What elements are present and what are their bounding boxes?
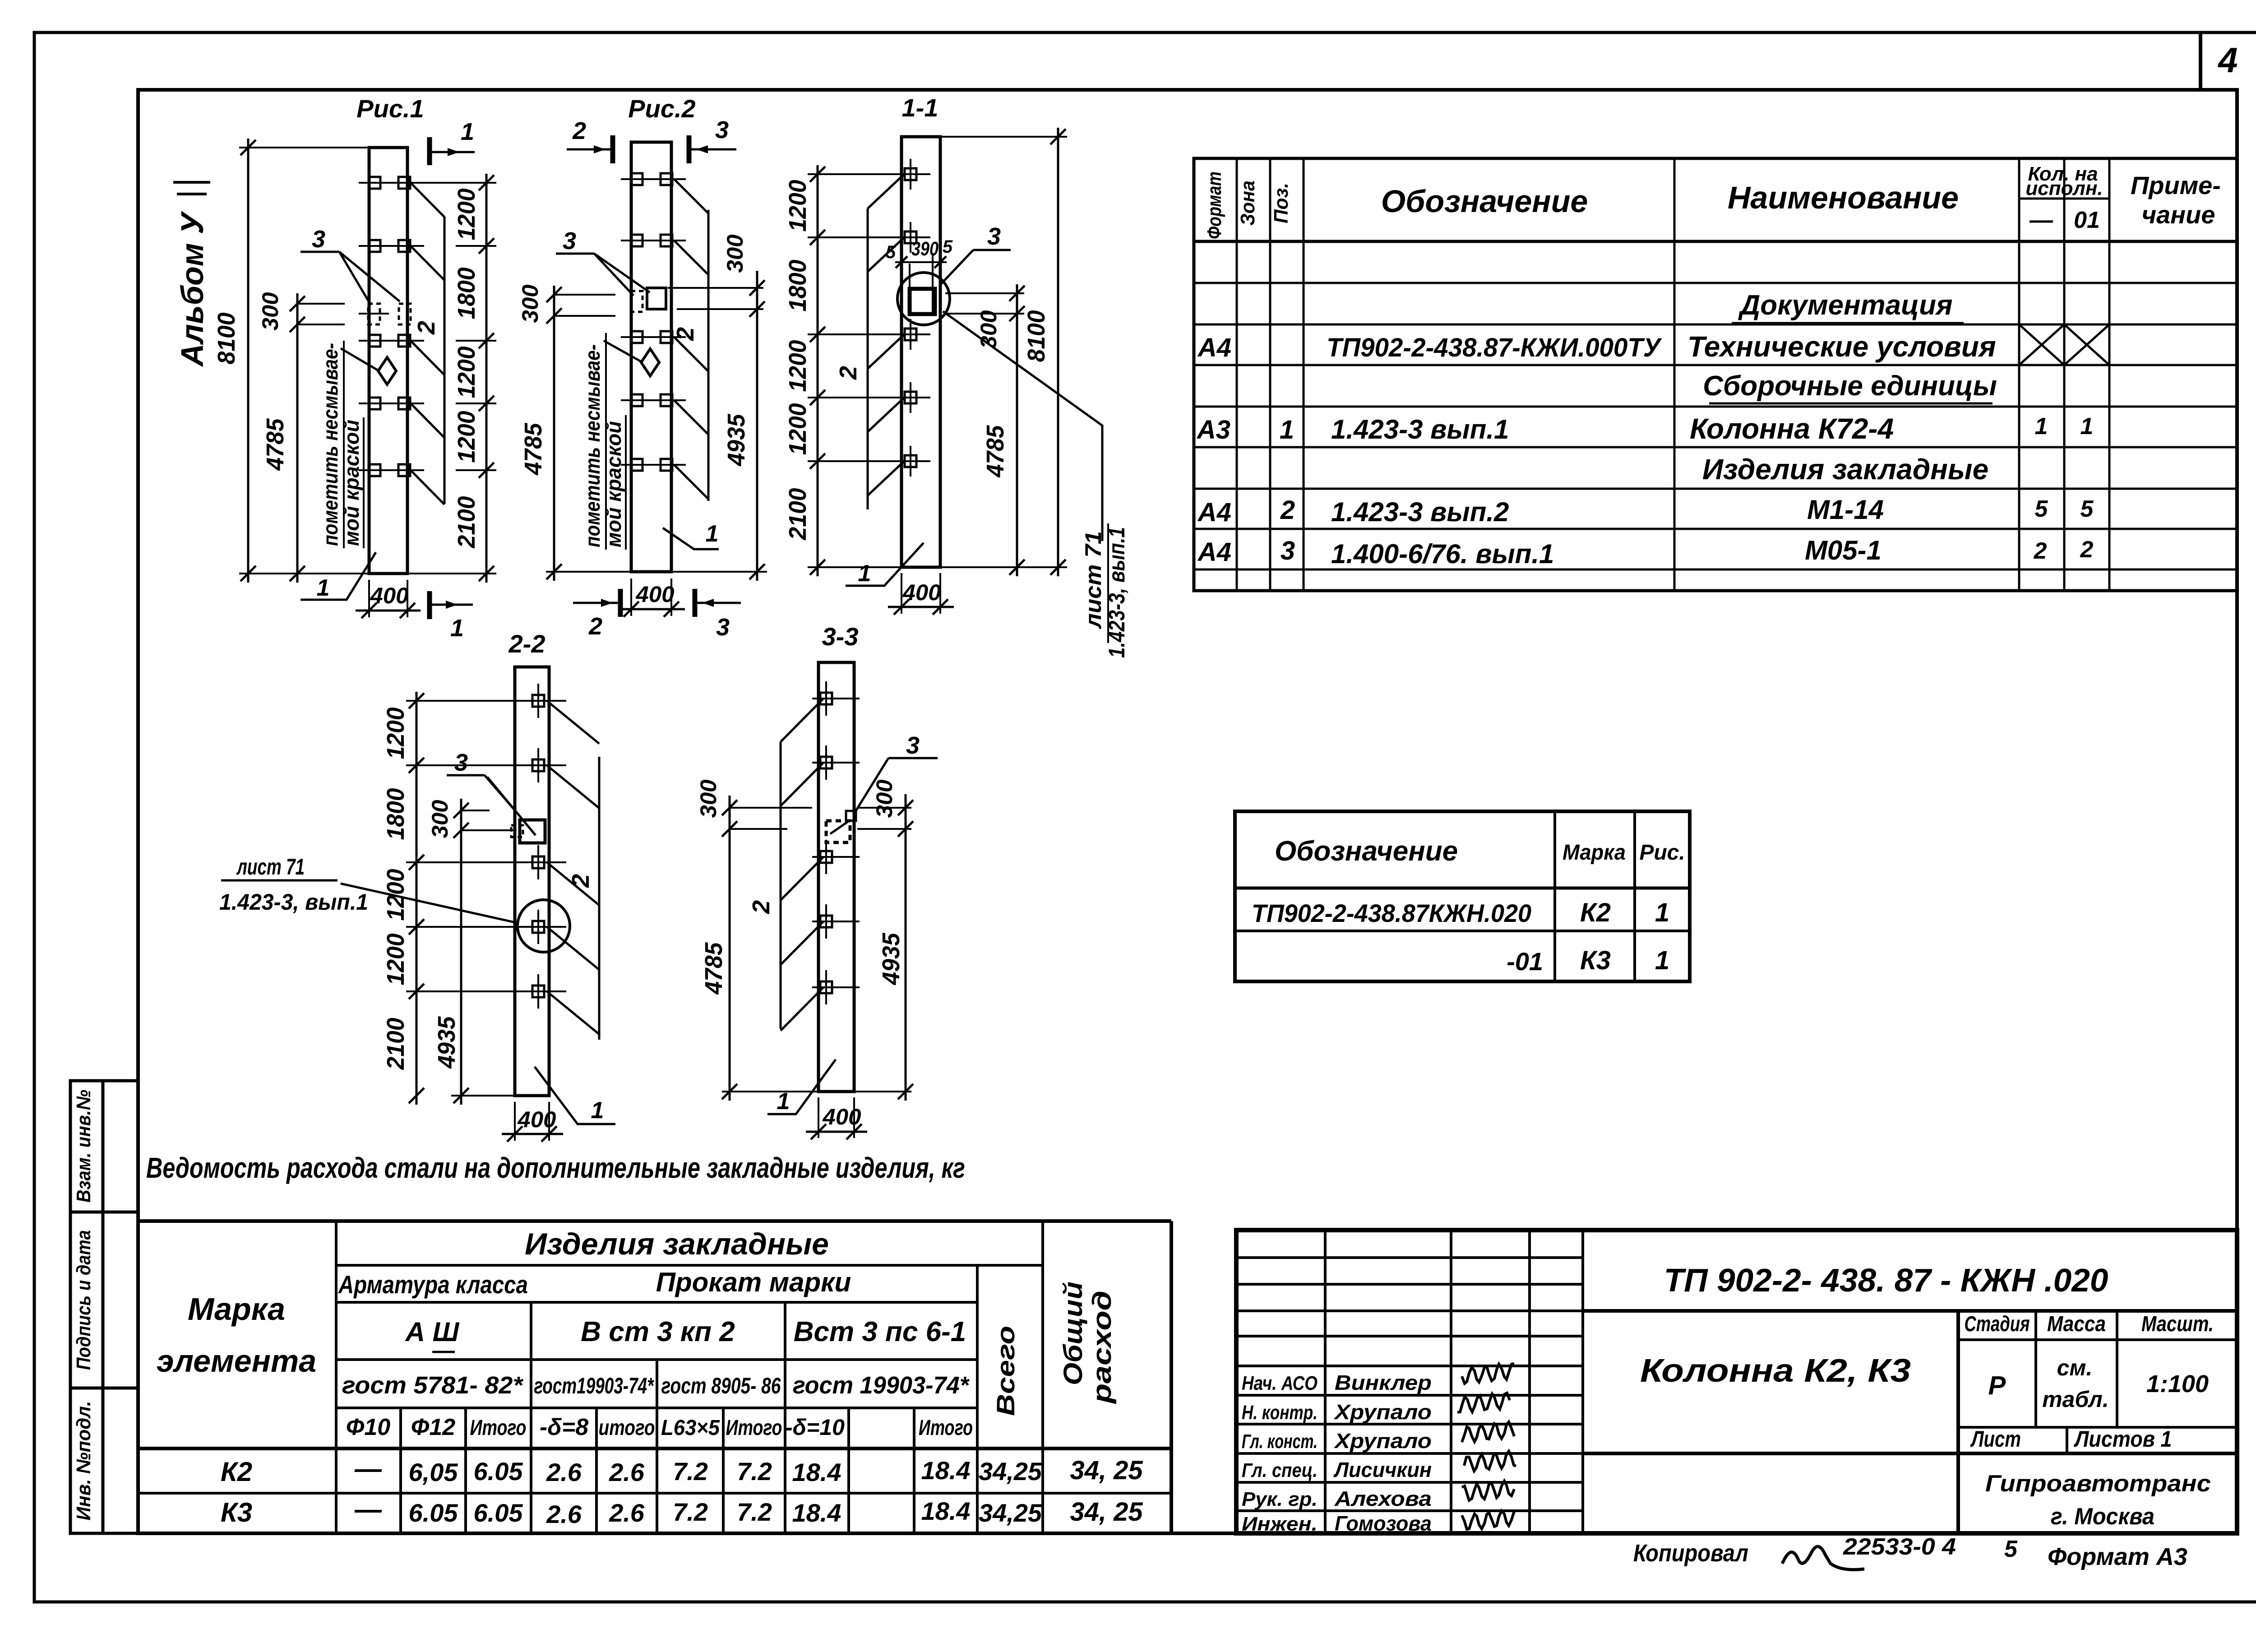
svg-text:Общий: Общий — [1059, 1282, 1088, 1385]
svg-text:18.4: 18.4 — [921, 1456, 971, 1485]
svg-text:М1-14: М1-14 — [1807, 495, 1884, 525]
svg-text:400: 400 — [517, 1107, 556, 1132]
svg-text:1200: 1200 — [453, 189, 480, 241]
svg-text:Рис.: Рис. — [1639, 841, 1685, 865]
svg-text:6.05: 6.05 — [409, 1499, 458, 1527]
2-2 dimension 4935 — [433, 830, 515, 1105]
svg-text:лист 71: лист 71 — [236, 854, 305, 879]
svg-text:-01: -01 — [1507, 947, 1543, 976]
svg-text:гост 19903-74*: гост 19903-74* — [793, 1372, 970, 1399]
svg-text:Сборочные единицы: Сборочные единицы — [1703, 370, 1997, 402]
Ris.2 right dimension 300 — [668, 234, 765, 317]
svg-text:Ф12: Ф12 — [411, 1414, 456, 1440]
svg-text:3: 3 — [715, 116, 729, 143]
1-1 embedded plates — [890, 159, 930, 477]
3-3 column body — [818, 662, 854, 1092]
svg-text:1200: 1200 — [784, 180, 811, 232]
svg-text:400: 400 — [370, 583, 408, 608]
svg-text:1: 1 — [591, 1097, 604, 1124]
svg-text:1800: 1800 — [784, 260, 811, 312]
svg-text:7.2: 7.2 — [737, 1457, 772, 1485]
svg-text:300: 300 — [872, 779, 897, 818]
svg-text:К2: К2 — [221, 1457, 252, 1487]
svg-text:390: 390 — [911, 238, 938, 260]
svg-text:1: 1 — [2035, 413, 2048, 440]
svg-text:3: 3 — [987, 223, 1001, 250]
svg-text:1: 1 — [1280, 415, 1294, 444]
svg-text:А4: А4 — [1197, 537, 1231, 567]
svg-text:1200: 1200 — [453, 411, 480, 463]
Ris.2 special plate — [631, 288, 666, 312]
svg-text:4785: 4785 — [982, 425, 1009, 478]
svg-text:1-1: 1-1 — [902, 93, 938, 122]
svg-text:1: 1 — [706, 521, 719, 547]
Ris.2 section mark 2 top — [567, 117, 613, 163]
svg-text:К3: К3 — [221, 1497, 252, 1527]
steel table class AIII — [405, 1317, 460, 1352]
svg-text:Всего: Всего — [991, 1326, 1020, 1416]
figure 1-1 title — [902, 93, 938, 122]
svg-text:5: 5 — [2035, 496, 2048, 522]
svg-text:Масса: Масса — [2047, 1312, 2106, 1336]
marks table row K3 — [1507, 946, 1669, 976]
svg-text:ТП902-2-438.87-КЖИ.000ТУ: ТП902-2-438.87-КЖИ.000ТУ — [1327, 333, 1662, 362]
svg-text:300: 300 — [258, 292, 283, 330]
svg-text:6.05: 6.05 — [474, 1457, 523, 1485]
svg-text:исполн.: исполн. — [2025, 177, 2103, 199]
svg-text:табл.: табл. — [2042, 1387, 2109, 1412]
svg-text:18.4: 18.4 — [792, 1499, 841, 1527]
svg-text:1200: 1200 — [382, 934, 409, 986]
3-3 right dimension 300 — [857, 779, 913, 839]
svg-text:Лисичкин: Лисичкин — [1333, 1458, 1432, 1481]
label vzam inv — [73, 1090, 95, 1203]
Ris.2 embedded plates — [621, 173, 686, 471]
svg-text:1200: 1200 — [382, 708, 409, 759]
spec row sborochnye edinicy — [1703, 370, 1997, 403]
svg-text:В ст 3 кп 2: В ст 3 кп 2 — [581, 1316, 735, 1347]
svg-text:Стадия: Стадия — [1965, 1312, 2030, 1336]
svg-text:Взам. инв.№: Взам. инв.№ — [73, 1090, 95, 1203]
Ris.2 section mark 3 top — [689, 116, 736, 163]
svg-text:2.6: 2.6 — [609, 1458, 645, 1486]
svg-text:1: 1 — [1655, 946, 1669, 975]
svg-text:Изделия закладные: Изделия закладные — [1702, 453, 1988, 486]
svg-text:5: 5 — [2004, 1536, 2018, 1562]
Ris.1 note pometit nesmyvaemoy kraskoy — [319, 341, 379, 548]
Ris.2 dimension 4935 — [671, 309, 767, 581]
svg-text:2: 2 — [2080, 537, 2094, 563]
vedomost title text — [146, 1152, 965, 1184]
specification table grid — [1194, 158, 2237, 591]
2-2 detail circle — [518, 900, 570, 952]
svg-text:Итого: Итого — [726, 1416, 782, 1440]
svg-text:3: 3 — [312, 226, 325, 253]
svg-text:1800: 1800 — [453, 268, 480, 319]
svg-text:400: 400 — [635, 582, 674, 607]
svg-text:А4: А4 — [1197, 498, 1231, 527]
svg-text:3: 3 — [906, 732, 920, 759]
Ris.1 right dimension chain 1200 1800 1200 1200 2100 — [407, 174, 496, 583]
Ris.1 leader 1 bottom left — [300, 552, 376, 601]
1-1 callout 3 — [941, 223, 1011, 284]
title block outline — [1236, 1230, 2237, 1533]
svg-text:расход: расход — [1087, 1291, 1117, 1404]
svg-text:Нач. АСО: Нач. АСО — [1242, 1372, 1318, 1394]
svg-text:2: 2 — [835, 366, 862, 380]
svg-text:Гипроавтотранс: Гипроавтотранс — [1985, 1471, 2211, 1497]
svg-text:Листов 1: Листов 1 — [2074, 1426, 2172, 1452]
svg-text:2100: 2100 — [382, 1018, 409, 1070]
svg-text:2: 2 — [748, 900, 775, 914]
svg-text:Винклер: Винклер — [1335, 1371, 1432, 1394]
svg-text:01: 01 — [2074, 207, 2100, 233]
label podpis i data — [73, 1230, 95, 1370]
svg-text:Гомозова: Гомозова — [1335, 1512, 1432, 1535]
title block left grid — [1236, 1230, 1583, 1533]
svg-text:гост 5781- 82*: гост 5781- 82* — [342, 1372, 524, 1399]
svg-text:ТП902-2-438.87КЖН.020: ТП902-2-438.87КЖН.020 — [1252, 899, 1531, 927]
svg-text:34, 25: 34, 25 — [1070, 1497, 1143, 1527]
svg-text:-δ=8: -δ=8 — [540, 1414, 588, 1440]
svg-text:2100: 2100 — [784, 488, 811, 541]
Ris.1 dashed plates — [359, 304, 411, 324]
svg-text:Н. контр.: Н. контр. — [1242, 1402, 1318, 1424]
svg-text:Масшт.: Масшт. — [2141, 1312, 2214, 1336]
svg-text:34, 25: 34, 25 — [1070, 1456, 1143, 1485]
Ris.2 leader 1 — [663, 521, 719, 549]
Ris.1 embedded plates M1-14 — [359, 177, 424, 476]
svg-text:Вст 3 пс 6-1: Вст 3 пс 6-1 — [794, 1316, 966, 1347]
svg-text:2: 2 — [572, 117, 586, 144]
svg-text:3: 3 — [563, 227, 576, 255]
1-1 column body — [901, 137, 940, 567]
1-1 dimension 300 middle — [945, 284, 1025, 349]
2-2 callout list 71 — [219, 854, 519, 923]
svg-text:Колонна К72-4: Колонна К72-4 — [1690, 412, 1894, 445]
svg-text:1.400-6/76. вып.1: 1.400-6/76. вып.1 — [1331, 539, 1554, 569]
3-3 special plate — [826, 811, 856, 842]
2-2 special plate — [511, 820, 545, 843]
svg-text:Инв. №подл.: Инв. №подл. — [73, 1401, 95, 1521]
Ris.2 column body — [631, 142, 671, 572]
svg-text:8100: 8100 — [213, 313, 240, 365]
svg-text:2: 2 — [2034, 538, 2047, 564]
svg-text:гост 8905- 86: гост 8905- 86 — [661, 1373, 781, 1398]
2-2 column body — [515, 667, 549, 1096]
spec row M05-1 — [1197, 535, 2094, 569]
1-1 left dimension chain — [784, 165, 901, 576]
3-3 callout 3 — [854, 732, 938, 814]
svg-text:Р: Р — [1988, 1371, 2006, 1400]
Ris.2 bent bar position 2 — [672, 179, 708, 501]
1-1 dimension 4785 — [982, 314, 1025, 576]
Ris.1 column body — [369, 148, 407, 574]
3-3 left dimension 300 — [696, 779, 812, 839]
svg-text:3-3: 3-3 — [822, 622, 859, 651]
svg-text:1: 1 — [461, 118, 474, 145]
marks table grid — [1235, 811, 1690, 981]
steel table grid — [138, 1221, 1171, 1533]
1-1 leader 1 — [846, 543, 924, 587]
svg-text:34,25: 34,25 — [979, 1457, 1042, 1485]
Ris.1 dimension 300 — [258, 292, 345, 583]
svg-text:М05-1: М05-1 — [1805, 535, 1882, 565]
svg-text:400: 400 — [902, 580, 941, 605]
svg-text:4935: 4935 — [878, 933, 905, 986]
svg-text:4935: 4935 — [433, 1016, 460, 1069]
Ris.1 dimension 4785 — [262, 418, 305, 581]
svg-text:Обозначение: Обозначение — [1381, 184, 1588, 219]
1-1 bent bar position 2 — [835, 174, 904, 509]
figure 3-3 title — [822, 622, 859, 651]
steel table gost row — [342, 1372, 970, 1399]
svg-text:см.: см. — [2057, 1355, 2093, 1380]
1-1 leader to list 71 — [943, 311, 1129, 658]
svg-text:18.4: 18.4 — [792, 1458, 841, 1486]
svg-text:Инжен.: Инжен. — [1242, 1513, 1318, 1535]
spec row dokumentaciya — [1732, 290, 1964, 323]
marks table headers — [1275, 836, 1685, 867]
svg-text:4935: 4935 — [723, 414, 750, 467]
1-1 dimension 8100 — [940, 128, 1067, 576]
svg-text:гост19903-74*: гост19903-74* — [534, 1373, 655, 1398]
2-2 callout 3 — [447, 749, 536, 835]
svg-text:Подпись и дата: Подпись и дата — [73, 1230, 95, 1370]
figure 2-2 title — [509, 629, 546, 658]
svg-text:Прокат марки: Прокат марки — [656, 1267, 851, 1297]
svg-text:2: 2 — [1280, 495, 1295, 525]
svg-text:1800: 1800 — [382, 788, 409, 840]
album label — [173, 182, 210, 367]
2-2 leader 1 — [535, 1067, 615, 1124]
svg-text:Технические условия: Технические условия — [1687, 330, 1996, 363]
3-3 embedded plates — [812, 681, 860, 1004]
title block document number — [1664, 1263, 2108, 1299]
steel table header armatura klassa — [337, 1270, 528, 1299]
svg-text:7.2: 7.2 — [673, 1498, 708, 1526]
Ris.1 paint diamond mark — [378, 357, 396, 384]
svg-text:400: 400 — [822, 1104, 861, 1129]
steel table class Vst3ps6-1 — [794, 1316, 966, 1347]
steel table vsego rotated — [991, 1326, 1020, 1416]
spec row tehnicheskie usloviya — [1197, 330, 1996, 363]
spec crosses — [2019, 324, 2109, 365]
kopiroval line — [1633, 1534, 2187, 1570]
3-3 leader 1 — [767, 1060, 836, 1115]
Ris.1 dimension 8100 — [213, 139, 369, 583]
svg-text:300: 300 — [696, 779, 721, 818]
svg-text:34,25: 34,25 — [979, 1499, 1042, 1527]
svg-text:пометить несмывае-: пометить несмывае- — [581, 344, 604, 547]
svg-text:Итого: Итого — [919, 1416, 973, 1440]
svg-text:А3: А3 — [1196, 415, 1230, 444]
2-2 dimension 400 — [502, 1102, 563, 1142]
svg-text:1: 1 — [777, 1088, 790, 1115]
svg-text:2: 2 — [567, 874, 594, 888]
svg-text:Ведомость расхода стали на: Ведомость расхода стали на дополнительны… — [146, 1152, 965, 1184]
svg-text:1.423-3, вып.1: 1.423-3, вып.1 — [219, 889, 368, 915]
marks table row K2 — [1252, 898, 1669, 927]
steel table header prokat marki — [656, 1267, 851, 1297]
1-1 dimension 400 — [888, 573, 954, 615]
Ris.2 callout 3 — [556, 227, 650, 296]
svg-text:Хрупало: Хрупало — [1333, 1429, 1432, 1453]
svg-text:2: 2 — [672, 327, 699, 341]
svg-text:1: 1 — [1655, 898, 1669, 927]
svg-text:Формат А3: Формат А3 — [2048, 1543, 2187, 1570]
svg-text:1.423-3 вып.2: 1.423-3 вып.2 — [1331, 497, 1509, 527]
stamp boxes left margin — [70, 1081, 138, 1533]
figure Ris.1 title — [356, 94, 424, 123]
svg-text:4785: 4785 — [700, 942, 727, 995]
svg-text:1: 1 — [450, 615, 464, 642]
svg-text:элемента: элемента — [157, 1343, 316, 1379]
1-1 detail circle — [897, 273, 950, 325]
title block organization — [1985, 1471, 2211, 1530]
svg-text:Поз.: Поз. — [1270, 183, 1292, 223]
3-3 dimension 400 — [806, 1097, 867, 1139]
Ris.1 section mark 1 top — [430, 118, 475, 165]
svg-text:3: 3 — [1281, 536, 1295, 565]
svg-text:Рис.1: Рис.1 — [356, 94, 424, 123]
svg-text:г. Москва: г. Москва — [2051, 1504, 2154, 1530]
svg-text:—: — — [354, 1453, 382, 1484]
svg-text:Документация: Документация — [1738, 290, 1952, 321]
svg-text:2.6: 2.6 — [546, 1500, 582, 1528]
Ris.2 left dimension 300 — [518, 284, 615, 581]
svg-text:Арматура класса: Арматура класса — [337, 1270, 528, 1299]
svg-text:А Ш: А Ш — [405, 1317, 460, 1347]
svg-text:5: 5 — [943, 237, 953, 257]
steel table header izdeliya zakladnye — [525, 1227, 829, 1261]
svg-text:Копировал: Копировал — [1633, 1540, 1748, 1567]
svg-text:Колонна К2, К3: Колонна К2, К3 — [1640, 1353, 1911, 1389]
svg-text:—: — — [2029, 207, 2053, 233]
svg-text:1: 1 — [317, 575, 330, 601]
svg-text:Альбом У: Альбом У — [175, 211, 210, 367]
svg-text:Алехова: Алехова — [1334, 1487, 1432, 1510]
svg-text:5: 5 — [2080, 496, 2094, 522]
Ris.2 section mark 3 bottom — [695, 589, 741, 641]
svg-text:Марка: Марка — [1563, 841, 1626, 865]
svg-text:7.2: 7.2 — [673, 1457, 708, 1485]
spec row izdeliya zakladnye — [1702, 453, 1988, 486]
svg-text:5: 5 — [886, 242, 896, 262]
svg-text:6.05: 6.05 — [474, 1499, 523, 1527]
svg-text:8100: 8100 — [1023, 310, 1050, 362]
title block stadiya massa masshtab — [1965, 1312, 2214, 1412]
Ris.2 dimension 400 — [618, 578, 685, 617]
Ris.2 dimension 4785 — [520, 423, 631, 579]
steel table row K3 — [221, 1494, 1143, 1528]
svg-text:А4: А4 — [1197, 333, 1231, 362]
Ris.1 section mark 1 bottom — [430, 591, 473, 642]
svg-text:300: 300 — [722, 234, 748, 273]
svg-text:Рук. гр.: Рук. гр. — [1242, 1488, 1318, 1510]
svg-text:ТП 902-2- 438. 87 - КЖН .020: ТП 902-2- 438. 87 - КЖН .020 — [1664, 1263, 2108, 1299]
specification table headers — [1203, 163, 2221, 239]
svg-text:2: 2 — [413, 321, 440, 335]
title block signature rows — [1242, 1371, 1432, 1535]
title block list listov — [1970, 1426, 2172, 1452]
svg-text:300: 300 — [427, 800, 453, 838]
steel table marka elementa — [157, 1291, 316, 1379]
svg-text:1200: 1200 — [784, 340, 811, 392]
svg-text:2: 2 — [588, 613, 602, 640]
svg-text:4785: 4785 — [520, 423, 547, 476]
svg-text:—: — — [354, 1494, 382, 1524]
svg-text:2100: 2100 — [453, 496, 480, 549]
svg-text:1: 1 — [2080, 413, 2094, 440]
svg-text:пометить несмывае-: пометить несмывае- — [319, 343, 342, 546]
svg-text:Гл. конст.: Гл. конст. — [1242, 1430, 1318, 1453]
svg-text:Марка: Марка — [188, 1291, 285, 1327]
label inv n podl — [73, 1401, 95, 1521]
svg-text:1:100: 1:100 — [2146, 1370, 2209, 1397]
svg-text:4785: 4785 — [262, 418, 289, 471]
svg-text:22533-0 4: 22533-0 4 — [1843, 1534, 1956, 1560]
svg-text:3: 3 — [454, 749, 468, 776]
svg-text:Наименование: Наименование — [1728, 180, 1959, 215]
svg-text:Формат: Формат — [1203, 171, 1225, 239]
svg-text:К3: К3 — [1580, 946, 1611, 975]
figure Ris.2 title — [628, 94, 695, 123]
svg-text:чание: чание — [2142, 200, 2215, 229]
3-3 dimension 4935 — [854, 829, 913, 1101]
svg-text:Итого: Итого — [470, 1416, 527, 1440]
spec row M1-14 — [1197, 495, 2094, 527]
svg-text:1200: 1200 — [453, 347, 480, 398]
title block signatures squiggles — [1457, 1364, 1516, 1529]
svg-text:2.6: 2.6 — [609, 1499, 645, 1527]
svg-text:300: 300 — [518, 284, 543, 323]
spec row kolonna K72-4 — [1196, 412, 2094, 445]
svg-text:4: 4 — [2217, 40, 2238, 80]
Ris.1 bent bar position 2 — [411, 183, 444, 504]
3-3 bent bar position 2 — [748, 699, 823, 1031]
svg-text:Приме-: Приме- — [2131, 171, 2221, 199]
steel table class Vst3kp2 — [581, 1316, 735, 1347]
2-2 bent bar position 2 — [547, 701, 599, 1040]
Ris.1 callout 3 — [300, 226, 400, 305]
svg-text:Обозначение: Обозначение — [1275, 836, 1458, 867]
Ris.1 dimension 400 — [356, 580, 421, 618]
svg-text:7.2: 7.2 — [737, 1498, 772, 1526]
steel table row K2 — [221, 1453, 1143, 1487]
svg-text:Хрупало: Хрупало — [1333, 1400, 1432, 1424]
title block name Kolonna K2 K3 — [1640, 1353, 1911, 1389]
svg-text:К2: К2 — [1580, 898, 1611, 927]
svg-text:2-2: 2-2 — [509, 629, 546, 658]
svg-text:L63×5: L63×5 — [661, 1416, 720, 1440]
steel table obschiy rashod rotated — [1059, 1282, 1117, 1404]
svg-text:Гл. спец.: Гл. спец. — [1242, 1459, 1318, 1481]
page number box 4 — [2201, 32, 2238, 90]
steel table subcolumn labels — [346, 1414, 973, 1440]
Ris.2 note pometit nesmyvaemoy kraskoy — [581, 333, 643, 550]
svg-text:Рис.2: Рис.2 — [628, 94, 695, 123]
svg-text:лист 71: лист 71 — [1081, 531, 1106, 629]
svg-text:2.6: 2.6 — [546, 1458, 582, 1486]
svg-text:Лист: Лист — [1970, 1426, 2021, 1452]
svg-text:1200: 1200 — [784, 403, 811, 455]
svg-text:-δ=10: -δ=10 — [785, 1415, 845, 1440]
2-2 left dimension chain — [382, 692, 519, 1105]
title block right grid — [1583, 1311, 2237, 1533]
svg-text:18.4: 18.4 — [921, 1497, 971, 1525]
svg-text:3: 3 — [716, 614, 730, 641]
